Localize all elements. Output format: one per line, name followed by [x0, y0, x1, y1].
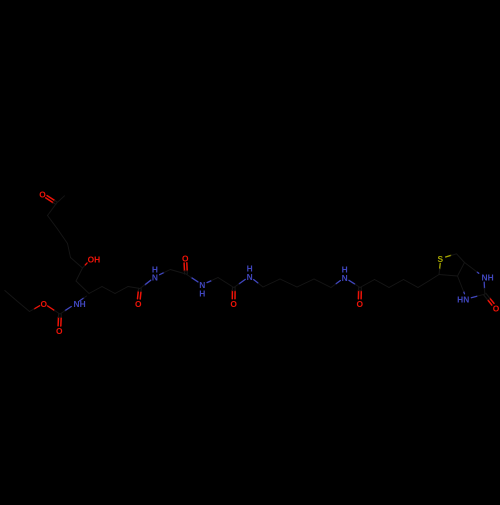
- svg-text:S: S: [438, 254, 444, 264]
- svg-text:O: O: [39, 190, 46, 200]
- S-CH bond: [439, 263, 440, 274]
- ester O-CH2 bond: [30, 306, 40, 312]
- svg-text:O: O: [356, 299, 363, 309]
- svg-text:H: H: [247, 264, 253, 274]
- amide4 C=O double bond: [358, 288, 361, 299]
- gly2 C=O double bond: [232, 288, 235, 299]
- S-CH2 bond: [446, 254, 457, 257]
- alkyl chain from ketone to carbinol C: [48, 203, 83, 268]
- ring N1-C6a bond: [465, 263, 479, 274]
- carbamate C=O double bond: [58, 314, 61, 326]
- gly2 CH2-C bond: [218, 278, 234, 288]
- pentyl chain: [263, 279, 331, 288]
- alkyl tail of ester: [5, 291, 30, 312]
- ester O-C(=O) bond: [48, 306, 60, 314]
- amide1 N-CH2 bond: [160, 270, 171, 275]
- svg-text:O: O: [230, 299, 237, 309]
- svg-text:OH: OH: [88, 255, 101, 265]
- ring fusion bond: [458, 263, 465, 277]
- amide3 N-CH2 bond: [254, 280, 263, 287]
- amide2 N-C bond: [186, 274, 198, 282]
- ketone C=O double bond: [46, 196, 58, 205]
- amide1 N-C bond: [140, 280, 151, 288]
- ring C3a-C4 bond: [439, 275, 458, 277]
- ring N3-C2 bond: [471, 294, 485, 298]
- svg-text:O: O: [182, 254, 189, 264]
- svg-text:O: O: [493, 303, 500, 313]
- svg-text:H: H: [342, 265, 348, 275]
- svg-text:O: O: [135, 299, 142, 309]
- svg-text:NH: NH: [482, 273, 494, 283]
- gly1 CH2-C bond: [170, 270, 186, 275]
- ring N1-C2 bond: [483, 282, 486, 294]
- carbamate N-C bond: [60, 307, 71, 315]
- gly1 C=O double bond: [184, 263, 187, 274]
- amine4 N-CH2 bond: [331, 281, 340, 288]
- amide4 N-C bond: [349, 280, 360, 287]
- amide2 N-CH2 bond: [207, 278, 218, 283]
- chain carbamate CH to amide C1: [89, 287, 140, 294]
- chain carbinol to carbamate CH: [76, 268, 89, 294]
- ring N3-C3a bond: [458, 276, 465, 294]
- svg-text:H: H: [199, 288, 205, 298]
- svg-text:O: O: [56, 326, 63, 336]
- biotin valeryl chain: [360, 275, 439, 288]
- ring C6-C6a bond: [457, 254, 465, 263]
- svg-text:H: H: [152, 264, 158, 274]
- biotin ureido C=O double bond: [484, 293, 494, 305]
- methyl stub on ketone C: [57, 196, 65, 203]
- carbamate N-CH bond: [80, 296, 87, 301]
- amide3 N-C bond: [234, 279, 246, 287]
- C-OH bond: [83, 263, 88, 268]
- amide1 C=O double bond: [138, 288, 142, 299]
- svg-text:O: O: [40, 299, 47, 309]
- svg-text:HN: HN: [457, 294, 469, 304]
